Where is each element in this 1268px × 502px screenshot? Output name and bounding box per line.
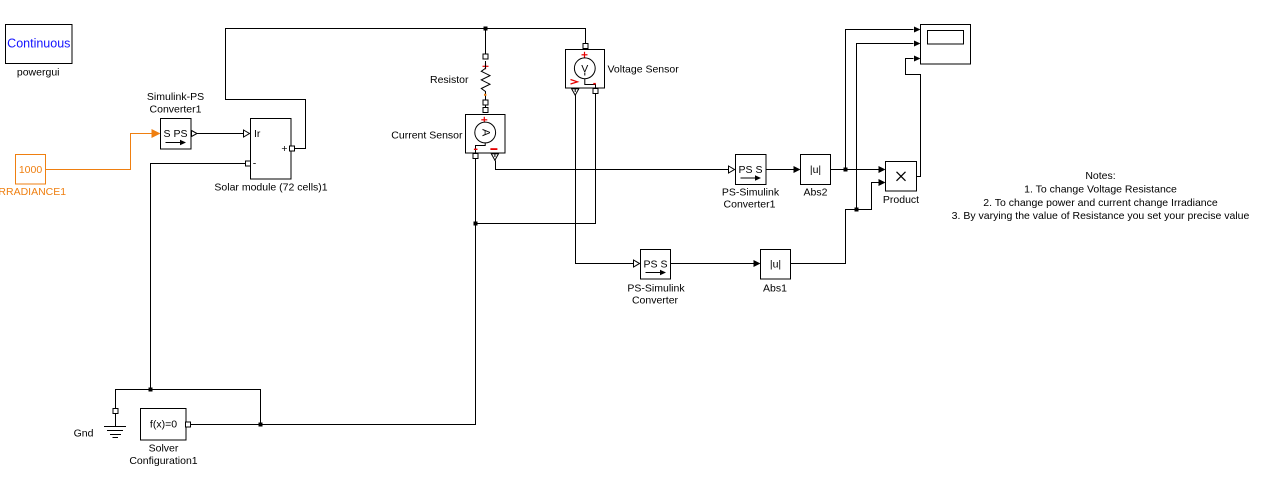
wire: current sensor PS out to PS-Simulink Converter1 bbox=[495, 160, 735, 173]
svg-text:Converter1: Converter1 bbox=[724, 199, 776, 211]
resistor minus mark (orange dot) bbox=[484, 94, 486, 96]
svg-text:Abs1: Abs1 bbox=[763, 282, 787, 294]
solar module + port bbox=[290, 146, 295, 151]
solver configuration block bbox=[141, 409, 187, 441]
solar module - port bbox=[246, 161, 251, 166]
wire: Abs2 to Product input1 bbox=[831, 166, 886, 173]
svg-text:Ir: Ir bbox=[254, 128, 261, 140]
svg-text:|u|: |u| bbox=[770, 259, 781, 271]
wire: junction to voltage sensor - bbox=[476, 94, 596, 224]
svg-text:2. To change power and current: 2. To change power and current change Ir… bbox=[983, 197, 1218, 209]
svg-text:|u|: |u| bbox=[810, 164, 821, 176]
svg-text:Abs2: Abs2 bbox=[804, 186, 828, 198]
svg-text:Continuous: Continuous bbox=[7, 37, 70, 51]
wire: solar - to ground node bbox=[151, 164, 246, 390]
solver configuration port bbox=[186, 422, 191, 427]
svg-text:Converter: Converter bbox=[632, 295, 679, 307]
Abs2 block bbox=[801, 155, 831, 185]
converter Simulink-PS Converter1 bbox=[161, 119, 198, 150]
powergui block bbox=[6, 25, 73, 64]
svg-text:Product: Product bbox=[883, 194, 919, 206]
wire: Converter1 to Solar module Ir input bbox=[197, 130, 250, 137]
resistor bottom port bbox=[483, 100, 488, 105]
converter PS-Simulink Converter1 bbox=[736, 155, 767, 185]
scope block bbox=[921, 25, 971, 65]
PS-Simulink Converter1 label bbox=[722, 186, 780, 210]
wire: Product output to Scope input3 bbox=[906, 56, 921, 177]
voltage sensor block bbox=[566, 50, 605, 89]
notes annotation bbox=[952, 170, 1250, 222]
svg-text:Resistor: Resistor bbox=[430, 74, 469, 86]
svg-text:1. To change Voltage Resistanc: 1. To change Voltage Resistance bbox=[1024, 183, 1177, 195]
voltage sensor - port bbox=[593, 89, 598, 94]
svg-text:PS S: PS S bbox=[739, 164, 763, 176]
product input2 arrow bbox=[879, 179, 886, 186]
svg-text:Solar module (72 cells)1: Solar module (72 cells)1 bbox=[214, 182, 327, 194]
product block bbox=[886, 162, 917, 192]
svg-text:IRRADIANCE1: IRRADIANCE1 bbox=[0, 186, 66, 198]
constant block IRRADIANCE1 bbox=[16, 155, 46, 185]
svg-text:PS-Simulink: PS-Simulink bbox=[722, 186, 780, 198]
wire: solar + up over to top rail and to voltage sensor bbox=[226, 29, 586, 149]
voltage sensor top port bbox=[583, 44, 588, 49]
svg-text:Converter1: Converter1 bbox=[150, 103, 202, 115]
ground rail wire bbox=[116, 390, 261, 425]
Abs1 block bbox=[761, 250, 791, 280]
svg-text:Voltage Sensor: Voltage Sensor bbox=[608, 64, 680, 76]
resistor R top port bbox=[483, 54, 488, 59]
svg-text:Gnd: Gnd bbox=[74, 428, 94, 440]
svg-text:A: A bbox=[479, 129, 491, 137]
svg-text:PS S: PS S bbox=[644, 259, 668, 271]
current sensor top port bbox=[483, 108, 488, 113]
junction at solver rail bbox=[259, 423, 263, 427]
svg-text:PS-Simulink: PS-Simulink bbox=[627, 282, 685, 294]
svg-text:Solver: Solver bbox=[149, 443, 179, 455]
svg-text:Simulink-PS: Simulink-PS bbox=[147, 91, 204, 103]
svg-text:-: - bbox=[253, 158, 257, 170]
converter PS-Simulink Converter bbox=[641, 250, 671, 280]
junction on Abs1 wire bbox=[855, 208, 859, 212]
scope input2 arrow bbox=[914, 41, 921, 47]
wire: IRRADIANCE1 to Simulink-PS Converter1 (orange) bbox=[46, 129, 161, 170]
current sensor - port bbox=[473, 154, 478, 159]
Solver Configuration1 label bbox=[129, 443, 197, 467]
junction on Abs2 output bbox=[844, 168, 848, 172]
wire: Abs1 to Product input2 bbox=[791, 183, 879, 264]
wire: voltage sensor PS out to PS-Simulink Converter bbox=[575, 95, 639, 267]
PS-Simulink Converter label bbox=[627, 282, 685, 306]
wire: resistor to current sensor bbox=[485, 105, 487, 108]
svg-text:Current Sensor: Current Sensor bbox=[391, 130, 463, 142]
wire: Converter to Abs1 bbox=[671, 260, 761, 267]
svg-text:powergui: powergui bbox=[17, 66, 60, 78]
resistor zigzag bbox=[481, 61, 490, 100]
wire: Converter1 to Abs2 bbox=[766, 166, 801, 173]
wire: bottom rail to current sensor bbox=[261, 159, 476, 425]
svg-text:Configuration1: Configuration1 bbox=[129, 455, 197, 467]
current sensor PS out port bbox=[491, 154, 498, 160]
svg-text:3. By varying the value of Res: 3. By varying the value of Resistance yo… bbox=[952, 210, 1250, 222]
ground symbol Gnd bbox=[104, 409, 126, 438]
wire: junction up to Scope input1 bbox=[846, 27, 921, 170]
junction at resistor top bbox=[484, 27, 488, 31]
voltage sensor PS out port bbox=[572, 89, 579, 95]
svg-text:Notes:: Notes: bbox=[1085, 170, 1115, 182]
wire: junction up to Scope input2 bbox=[857, 44, 914, 210]
resistor red plus bbox=[483, 63, 489, 69]
solar module block bbox=[251, 119, 292, 180]
junction on ground rail bbox=[149, 388, 153, 392]
svg-text:1000: 1000 bbox=[19, 164, 43, 176]
wire: top rail down to resistor bbox=[485, 29, 487, 55]
current sensor block bbox=[466, 115, 506, 154]
Simulink-PS Converter1 label bbox=[147, 91, 204, 115]
svg-text:S PS: S PS bbox=[164, 128, 188, 140]
svg-text:+: + bbox=[281, 143, 287, 155]
svg-text:f(x)=0: f(x)=0 bbox=[150, 419, 177, 431]
junction voltage sensor minus bbox=[474, 222, 478, 226]
